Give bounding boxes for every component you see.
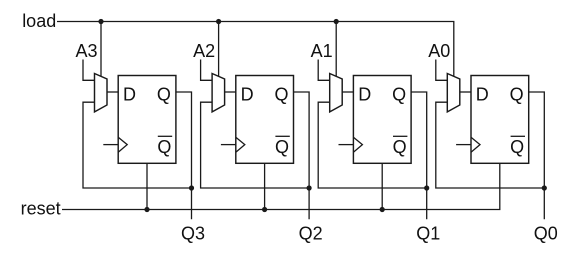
wire: reset drop from U2 bottom bbox=[264, 163, 266, 209]
svg-text:Q: Q bbox=[393, 137, 407, 157]
D flip-flop U4 body bbox=[471, 76, 529, 164]
wire: Q0 feedback to mux M4 input 0 bbox=[436, 102, 545, 188]
wire: reset drop from U3 bottom bbox=[381, 163, 383, 209]
svg-text:D: D bbox=[241, 85, 254, 105]
wire: reset drop from U1 bottom bbox=[146, 163, 148, 209]
svg-text:Q: Q bbox=[274, 85, 288, 105]
D flip-flop U1 body bbox=[118, 76, 176, 164]
wire: clock stub of U1 bbox=[103, 144, 118, 146]
svg-text:Q3: Q3 bbox=[181, 224, 205, 244]
junction on Q2 line at feedback tap bbox=[307, 185, 312, 190]
svg-text:A3: A3 bbox=[75, 41, 97, 61]
wire: mux M4 output to D of U4 bbox=[460, 91, 471, 93]
svg-text:Q0: Q0 bbox=[534, 224, 558, 244]
svg-text:Q: Q bbox=[510, 137, 524, 157]
wire: Q3 feedback to mux M1 input 0 bbox=[83, 102, 192, 188]
svg-text:load: load bbox=[22, 11, 56, 31]
svg-text:reset: reset bbox=[21, 199, 61, 219]
wire: mux M2 output to D of U2 bbox=[225, 91, 236, 93]
junction on Q3 line at feedback tap bbox=[189, 185, 194, 190]
mux M4 (2:1, load select) bbox=[447, 74, 460, 112]
wire: A1 to mux M3 input 1 bbox=[318, 60, 330, 81]
junction on Q0 line at feedback tap bbox=[542, 185, 547, 190]
junction on load line at mux M2 select bbox=[216, 19, 221, 24]
wire: clock stub of U4 bbox=[456, 144, 471, 146]
junction on Q1 line at feedback tap bbox=[424, 185, 429, 190]
wire: load select drop to mux M1 bbox=[100, 22, 102, 77]
wire: Q of U1 right and down to output Q3 bbox=[176, 92, 192, 219]
svg-text:Q2: Q2 bbox=[299, 224, 323, 244]
svg-text:D: D bbox=[476, 85, 489, 105]
svg-text:Q: Q bbox=[275, 137, 289, 157]
svg-text:Q1: Q1 bbox=[416, 224, 440, 244]
junction on reset line at U2 bbox=[262, 207, 267, 212]
mux M3 (2:1, load select) bbox=[330, 74, 343, 112]
wire: clock stub of U3 bbox=[339, 144, 354, 146]
junction on reset line at U3 bbox=[380, 207, 385, 212]
svg-text:Q: Q bbox=[157, 137, 171, 157]
clock input triangle of U3 bbox=[353, 137, 362, 152]
wire: mux M3 output to D of U3 bbox=[342, 91, 353, 93]
wire: load line (with corner drop into mux U4 select) bbox=[57, 22, 454, 77]
wire: clock stub of U2 bbox=[221, 144, 236, 146]
mux M1 (2:1, load select) bbox=[95, 74, 108, 112]
junction on load line at mux M3 select bbox=[334, 19, 339, 24]
svg-text:Q: Q bbox=[510, 85, 524, 105]
mux M2 (2:1, load select) bbox=[212, 74, 225, 112]
wire: load select drop to mux M2 bbox=[218, 22, 220, 77]
wire: Q of U4 right and down to output Q0 bbox=[529, 92, 545, 219]
wire: load select drop to mux M3 bbox=[335, 22, 337, 77]
svg-text:D: D bbox=[358, 85, 371, 105]
D flip-flop U2 body bbox=[236, 76, 294, 164]
wire: A2 to mux M2 input 1 bbox=[201, 60, 213, 81]
junction on reset line at U1 bbox=[144, 207, 149, 212]
wire: Q of U2 right and down to output Q2 bbox=[294, 92, 310, 219]
svg-text:A2: A2 bbox=[193, 41, 215, 61]
clock input triangle of U4 bbox=[471, 137, 480, 152]
wire: Q1 feedback to mux M3 input 0 bbox=[318, 102, 427, 188]
svg-text:Q: Q bbox=[392, 85, 406, 105]
wire: mux M1 output to D of U1 bbox=[107, 91, 118, 93]
svg-text:D: D bbox=[123, 85, 136, 105]
wire: reset line (with corner drop up into flip-flop U4 bottom) bbox=[62, 163, 500, 209]
wire: A3 to mux M1 input 1 bbox=[83, 60, 95, 81]
clock input triangle of U2 bbox=[236, 137, 245, 152]
svg-text:A1: A1 bbox=[311, 41, 333, 61]
clock input triangle of U1 bbox=[118, 137, 127, 152]
wire: Q of U3 right and down to output Q1 bbox=[411, 92, 427, 219]
junction on load line at mux M1 select bbox=[98, 19, 103, 24]
svg-text:A0: A0 bbox=[428, 41, 450, 61]
D flip-flop U3 body bbox=[353, 76, 411, 164]
svg-text:Q: Q bbox=[157, 85, 171, 105]
wire: Q2 feedback to mux M2 input 0 bbox=[201, 102, 310, 188]
wire: A0 to mux M4 input 1 bbox=[436, 60, 448, 81]
